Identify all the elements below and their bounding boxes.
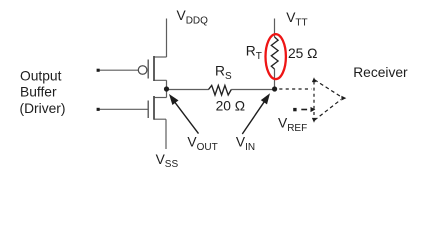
- svg-text:Receiver: Receiver: [353, 65, 408, 80]
- svg-text:Output: Output: [20, 68, 62, 83]
- svg-text:Buffer: Buffer: [20, 85, 57, 100]
- svg-text:20 Ω: 20 Ω: [216, 98, 246, 113]
- svg-text:(Driver): (Driver): [20, 101, 66, 116]
- svg-text:25 Ω: 25 Ω: [288, 46, 318, 61]
